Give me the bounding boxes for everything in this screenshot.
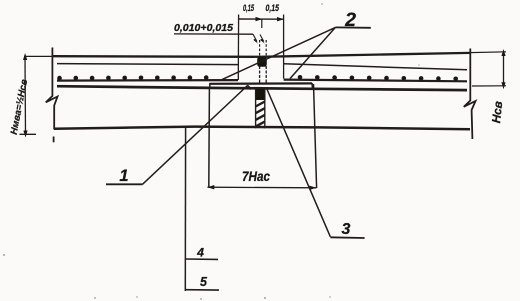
joint gap dashed edge left <box>259 40 261 56</box>
joint gap dashed edge right <box>265 40 267 56</box>
sealant blob <box>257 57 267 67</box>
anchor bar solid head (item 3) <box>256 89 265 100</box>
left dimension arrow bottom <box>23 131 27 138</box>
dimension extension left <box>237 15 239 81</box>
item 5 underline <box>186 289 219 291</box>
wire rebar line left <box>57 79 238 82</box>
svg-text:4: 4 <box>196 245 204 259</box>
dimension 7Нас arrow right <box>309 186 316 190</box>
left dimension arrow top <box>23 53 27 60</box>
left wall edge with break <box>46 48 58 130</box>
wire screed line right <box>284 64 467 70</box>
left height dimension line <box>24 56 27 134</box>
anchor bar left edge <box>255 89 257 128</box>
wire screed line left <box>57 64 238 65</box>
leader 1 <box>143 86 248 185</box>
joint gap edge right below blob <box>265 66 267 84</box>
rebar dots right (item 2 mesh) <box>298 75 458 81</box>
left wall dash below slab <box>53 137 55 143</box>
label 3 underline <box>330 236 364 239</box>
right dimension bottom extension <box>472 85 506 87</box>
right dimension arrow top <box>501 49 505 56</box>
svg-text:0,15: 0,15 <box>243 3 254 14</box>
dimension 7Нас arrow left <box>207 185 214 189</box>
anchor bar right edge <box>264 89 266 128</box>
rebar dots left (item 2 mesh) <box>57 75 208 80</box>
wire soffit thick line <box>57 86 467 90</box>
callout ladder vertical for items 4,5 <box>184 128 186 292</box>
bearing plate right corner <box>311 83 314 90</box>
svg-text:0,010+0,015: 0,010+0,015 <box>174 23 233 34</box>
label 2 underline <box>335 26 370 28</box>
leader 2b to right mesh <box>290 27 335 78</box>
wire top line extension right to dimension <box>470 51 506 54</box>
dimension extension right <box>283 15 285 79</box>
anchor bar hatch stripes <box>256 102 265 127</box>
svg-text:5: 5 <box>200 275 208 289</box>
leader 3 <box>267 89 330 237</box>
item 4 underline <box>186 258 219 260</box>
left dimension bottom tick <box>20 133 37 135</box>
svg-text:Нсв: Нсв <box>489 100 505 123</box>
right dimension arrow bottom <box>501 82 505 89</box>
gap arrow b <box>260 35 264 42</box>
leader 1 end tick on plate <box>247 85 251 89</box>
support box right edge <box>314 84 317 188</box>
dimension 0,15 0,15 line <box>239 18 284 20</box>
leader 2a to blob and left mesh <box>222 27 335 79</box>
svg-text:7Нас: 7Нас <box>242 168 270 184</box>
bearing plate top (item 1) <box>210 82 313 85</box>
dimension arrow mid <box>256 17 263 21</box>
support box left edge <box>208 88 211 187</box>
leader under 0,010+0,015 <box>174 33 253 35</box>
joint gap edge left below blob <box>259 66 261 84</box>
bearing plate left corner <box>209 83 211 88</box>
svg-text:3: 3 <box>342 221 351 238</box>
wire slab bottom line <box>54 127 470 130</box>
dimension 7Нас line <box>208 186 317 189</box>
gap arrow a <box>253 34 257 41</box>
wire top extension left to dimension <box>24 55 53 57</box>
svg-text:0,15: 0,15 <box>266 3 280 14</box>
scan speckles <box>3 3 420 300</box>
wire rebar line right <box>284 80 467 82</box>
dimension mid tick <box>261 19 263 28</box>
right height dimension line <box>503 52 505 86</box>
right wall edge with break <box>464 49 476 140</box>
wire top slab line <box>53 53 471 57</box>
label 1 underline <box>106 183 143 185</box>
dimension arrow right <box>277 17 284 21</box>
svg-text:1: 1 <box>119 167 128 185</box>
